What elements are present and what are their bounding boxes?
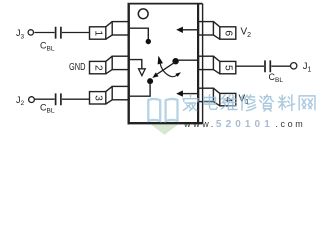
pin 3 xyxy=(90,86,130,104)
wire V2 with arrow xyxy=(183,29,198,31)
IC body xyxy=(130,3,203,5)
capacitor CBL (J3) xyxy=(56,27,61,39)
svg-text:6: 6 xyxy=(222,30,233,36)
hanzi zi xyxy=(260,95,274,111)
wire J2 to C xyxy=(35,98,55,100)
wire C to J1 xyxy=(271,65,290,67)
node B dot (to pin5) xyxy=(172,58,178,64)
wire pin5 to C xyxy=(236,65,264,67)
pin-1 indicator circle xyxy=(138,9,148,19)
wire C to pin1 xyxy=(62,32,90,34)
wire C to pin3 xyxy=(62,98,90,100)
wire GND internal xyxy=(130,60,142,69)
watermark logo book xyxy=(148,99,177,121)
pin 6 xyxy=(199,22,236,40)
wire common to pin3 xyxy=(130,83,150,96)
switch arm from B with arrowhead xyxy=(157,62,175,74)
svg-text:GND: GND xyxy=(69,62,86,73)
hanzi wang xyxy=(299,96,315,110)
connector J3 circle xyxy=(28,30,33,35)
svg-text:3: 3 xyxy=(92,95,103,101)
switch motion double arrow arc xyxy=(160,64,177,77)
connector J1 circle xyxy=(291,63,297,69)
pin 4 xyxy=(199,88,236,106)
svg-text:2: 2 xyxy=(92,65,103,71)
wire V1 with arrow xyxy=(183,93,198,95)
hanzi xiu xyxy=(240,95,255,111)
hanzi liao xyxy=(278,95,294,111)
svg-text:www.520101.com: www.520101.com xyxy=(183,119,305,130)
svg-text:5: 5 xyxy=(222,65,233,71)
hanzi dian xyxy=(204,95,217,109)
wire B to pin5 xyxy=(178,59,198,61)
connector J2 circle xyxy=(29,97,35,103)
capacitor CBL (J2) xyxy=(56,93,61,105)
watermark chinese text (hand-drawn strokes) xyxy=(183,95,315,112)
pin 5 xyxy=(199,56,236,74)
ground triangle xyxy=(139,69,146,76)
wire pin1 internal xyxy=(130,28,148,39)
hanzi jia xyxy=(183,95,198,111)
node A dot (from pin1) xyxy=(146,39,151,44)
pin 1 xyxy=(90,22,130,40)
hanzi wei xyxy=(221,95,237,110)
svg-text:1: 1 xyxy=(92,30,103,36)
IC body 3D side line xyxy=(202,4,204,124)
watermark green triangle xyxy=(151,125,178,135)
capacitor CBL (J1) xyxy=(265,60,270,72)
pin 2 xyxy=(90,56,130,74)
node C dot (switch common) xyxy=(147,78,153,84)
wire J3 to C xyxy=(34,32,54,34)
